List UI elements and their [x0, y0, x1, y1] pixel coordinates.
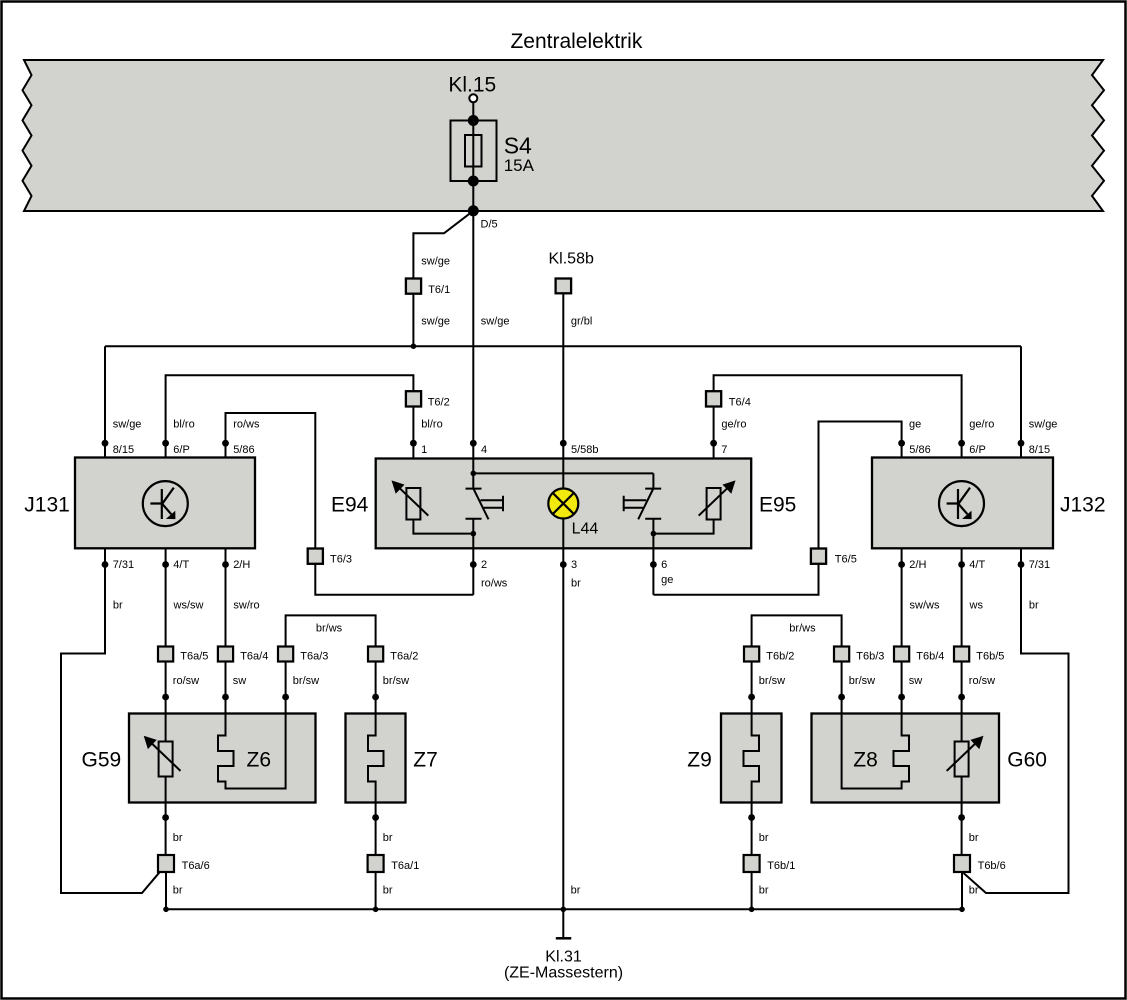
svg-text:T6b/6: T6b/6 [978, 860, 1006, 872]
switch contact E95 [624, 473, 662, 533]
connector T6b/5 [954, 647, 969, 662]
wire bus to J131 8/15 [104, 346, 106, 458]
svg-text:T6a/1: T6a/1 [391, 860, 419, 872]
svg-text:bl/ro: bl/ro [173, 419, 194, 431]
wire to heater box [225, 662, 227, 714]
connector T6a/2 [368, 647, 383, 662]
pin 5/86 [222, 440, 229, 447]
svg-text:E94: E94 [331, 494, 369, 517]
connector T6a/4 [218, 647, 233, 662]
wire J132 2/H to T6b/4 sw/ws [901, 548, 903, 646]
junction [958, 814, 965, 821]
svg-text:3: 3 [571, 559, 577, 571]
svg-text:G59: G59 [82, 749, 122, 772]
junction [372, 814, 379, 821]
svg-text:sw/ro: sw/ro [233, 600, 259, 612]
junction [282, 694, 289, 701]
svg-text:Z9: Z9 [687, 749, 712, 772]
svg-text:T6/5: T6/5 [835, 554, 857, 566]
junction ground bus [561, 907, 567, 913]
svg-text:Kl.15: Kl.15 [448, 74, 496, 97]
svg-text:sw/ge: sw/ge [1029, 419, 1058, 431]
wire J132 4/T to T6b/5 ws [961, 548, 963, 646]
connector T6/2 [406, 391, 421, 406]
pin 7/31 [1018, 561, 1025, 568]
svg-text:br: br [173, 832, 183, 844]
junction ground bus [163, 907, 169, 913]
connector T6b/4 [894, 647, 909, 662]
connector T6/5 [811, 549, 826, 564]
svg-text:Zentralelektrik: Zentralelektrik [510, 30, 642, 53]
svg-text:T6b/5: T6b/5 [976, 651, 1004, 663]
svg-text:ge: ge [909, 419, 921, 431]
wire G60 pot top [961, 714, 963, 742]
svg-text:4/T: 4/T [969, 559, 985, 571]
connector T6/4 [706, 391, 721, 406]
svg-text:gr/bl: gr/bl [571, 316, 592, 328]
connector T6a/1 [368, 855, 384, 872]
connector T6a/5 [158, 647, 173, 662]
svg-text:br: br [113, 600, 123, 612]
wire D/5 to E94 pin 4 sw/ge [472, 211, 474, 459]
svg-text:br: br [1029, 600, 1039, 612]
svg-text:T6b/2: T6b/2 [766, 651, 794, 663]
svg-text:1: 1 [421, 444, 427, 456]
junction E94 switch bottom [471, 531, 477, 537]
svg-text:br: br [759, 832, 769, 844]
wire br/ws bridge T6a/3-T6a/2 [286, 615, 376, 646]
dimmer/switch unit E94 E95 [376, 459, 752, 549]
svg-text:sw/ge: sw/ge [113, 419, 142, 431]
pin 6 [650, 561, 657, 568]
junction [748, 814, 755, 821]
junction [162, 694, 169, 701]
junction ground bus [959, 907, 965, 913]
transistor symbol J131 [143, 481, 188, 526]
svg-text:2/H: 2/H [909, 559, 926, 571]
wire to ground bus br [751, 872, 753, 909]
svg-text:G60: G60 [1007, 749, 1047, 772]
wire Kl.15 to fuse [472, 102, 474, 120]
svg-text:J131: J131 [24, 494, 70, 517]
pin 4 [470, 440, 477, 447]
connector T6a/3 [278, 647, 293, 662]
node D/5 [468, 205, 479, 216]
wire to heater box [751, 662, 753, 714]
pin 3 [560, 561, 567, 568]
wire E95 pot to switch [653, 520, 713, 534]
wire to heater box [285, 662, 287, 714]
potentiometer G59 [144, 736, 181, 777]
svg-text:2/H: 2/H [233, 559, 250, 571]
svg-text:T6a/3: T6a/3 [300, 651, 328, 663]
pin 4/T [162, 561, 169, 568]
svg-text:br/ws: br/ws [789, 623, 816, 635]
svg-text:T6a/2: T6a/2 [390, 651, 418, 663]
junction ground bus [373, 907, 379, 913]
heater unit Z8 G60 [812, 714, 1000, 803]
pin 5/86 [898, 440, 905, 447]
junction bus T6/1 [411, 343, 417, 349]
svg-text:7/31: 7/31 [1029, 559, 1050, 571]
Zentralelektrik supply block [23, 60, 1105, 211]
switch contact E94 [466, 459, 504, 534]
svg-text:D/5: D/5 [481, 219, 498, 231]
svg-text:(ZE-Massestern): (ZE-Massestern) [504, 965, 623, 982]
wire E95 switch to pin 6 [652, 534, 654, 595]
wire J131 2/H to T6a/4 sw/ro [225, 548, 227, 646]
wire D/5 to T6/1 sw/ge [413, 211, 473, 279]
svg-text:sw/ge: sw/ge [421, 256, 450, 268]
svg-text:ws/sw: ws/sw [173, 600, 204, 612]
wire to ground bus br [375, 872, 377, 909]
pin 2/H [222, 561, 229, 568]
connector T6/3 [308, 549, 323, 564]
wire E94 pot to switch [413, 520, 473, 534]
pin 8/15 [102, 440, 109, 447]
svg-text:15A: 15A [504, 156, 535, 175]
connector T6b/2 [744, 647, 759, 662]
wire T6/1 to bus [412, 294, 414, 347]
wire to heater box [841, 662, 843, 714]
junction ground bus [749, 907, 755, 913]
wire T6/3 to E94 pin 2 ro/ws [315, 564, 473, 595]
svg-text:br/ws: br/ws [316, 623, 343, 635]
svg-text:6/P: 6/P [969, 444, 986, 456]
svg-text:6/P: 6/P [173, 444, 190, 456]
svg-text:sw/ge: sw/ge [421, 316, 450, 328]
wire fuse to D/5 [472, 181, 474, 211]
pin 5/58b [560, 440, 567, 447]
svg-text:ge/ro: ge/ro [721, 419, 746, 431]
junction E95 switch bottom [651, 531, 657, 537]
svg-text:5/86: 5/86 [909, 444, 930, 456]
svg-text:Kl.31: Kl.31 [545, 949, 582, 966]
svg-text:bl/ro: bl/ro [421, 419, 442, 431]
control unit J131 [75, 458, 255, 549]
svg-text:ro/ws: ro/ws [481, 578, 508, 590]
potentiometer G60 [947, 736, 984, 777]
wire bus to J132 8/15 [1020, 346, 1022, 458]
wire Z9 out br [751, 803, 753, 856]
pin 6/P [958, 440, 965, 447]
wire J131 6/P to T6/2 bl/ro [166, 375, 414, 458]
connector T6/1 [406, 279, 421, 294]
wire T6/5 to E95 pin 6 ge [653, 564, 818, 595]
svg-text:Kl.58b: Kl.58b [549, 251, 594, 268]
wire J132 5/86 to T6/5 ge [819, 422, 902, 549]
svg-text:br: br [969, 885, 979, 897]
control unit J132 [872, 458, 1053, 549]
junction E94 switch top [471, 471, 477, 477]
pin 8/15 [1018, 440, 1025, 447]
svg-text:7/31: 7/31 [113, 559, 134, 571]
connector Kl.58b [556, 279, 572, 294]
svg-text:Z8: Z8 [853, 749, 878, 772]
wire E94 switch to E95 switch [473, 472, 653, 474]
svg-text:8/15: 8/15 [1029, 444, 1050, 456]
svg-text:ro/sw: ro/sw [969, 675, 995, 687]
connector T6b/3 [834, 647, 849, 662]
svg-text:7: 7 [721, 444, 727, 456]
pin 4/T [958, 561, 965, 568]
potentiometer E95 [699, 480, 736, 519]
svg-text:4: 4 [481, 444, 487, 456]
wire T6/4 to J132 6/P ge/ro [714, 375, 962, 458]
junction [222, 694, 229, 701]
heating element Z6 [218, 714, 286, 789]
svg-text:T6b/3: T6b/3 [856, 651, 884, 663]
svg-text:T6/4: T6/4 [729, 397, 751, 409]
connector T6b/6 [954, 855, 970, 872]
wire E95 pin 7 to T6/4 ge/ro [713, 407, 715, 459]
svg-text:br/sw: br/sw [759, 675, 785, 687]
svg-text:br: br [383, 832, 393, 844]
wire G59 out br [165, 777, 167, 856]
wire J131 4/T to T6a/5 ws/sw [165, 548, 167, 646]
svg-text:L44: L44 [572, 521, 599, 538]
pin 2 [470, 561, 477, 568]
potentiometer E94 [392, 480, 429, 519]
svg-text:br: br [759, 885, 769, 897]
wire J131 5/86 to T6/3 ro/ws [226, 413, 316, 549]
svg-text:T6a/6: T6a/6 [182, 860, 210, 872]
junction [372, 694, 379, 701]
svg-text:sw/ws: sw/ws [910, 600, 940, 612]
svg-text:ro/ws: ro/ws [233, 419, 260, 431]
junction [958, 694, 965, 701]
wire to heater box [961, 662, 963, 714]
fuse S4 [451, 115, 497, 187]
wire T6/2 to E94 pin 1 bl/ro [412, 407, 414, 489]
svg-text:T6b/4: T6b/4 [916, 651, 944, 663]
wire E94 switch to pin 2 [472, 534, 474, 595]
svg-text:T6b/1: T6b/1 [767, 860, 795, 872]
pin 1 [410, 440, 417, 447]
ground Kl.31 [556, 909, 572, 938]
pin 7/31 [102, 561, 109, 568]
svg-text:T6/1: T6/1 [428, 284, 450, 296]
heating element Z7 [368, 714, 384, 803]
wire lamp pin 3 to ground br [562, 519, 564, 910]
junction [162, 814, 169, 821]
wire G60 out br [961, 777, 963, 856]
svg-text:br/sw: br/sw [293, 675, 319, 687]
svg-text:sw/ge: sw/ge [481, 316, 510, 328]
svg-text:T6a/4: T6a/4 [240, 651, 268, 663]
svg-text:ro/sw: ro/sw [173, 675, 199, 687]
svg-text:ge: ge [661, 574, 673, 586]
wire to ground bus br [165, 872, 167, 909]
svg-text:Z7: Z7 [413, 749, 438, 772]
svg-text:Z6: Z6 [247, 749, 272, 772]
svg-text:4/T: 4/T [173, 559, 189, 571]
wire ground bus Kl.31 [166, 908, 962, 910]
svg-text:5/86: 5/86 [233, 444, 254, 456]
wire to heater box [165, 662, 167, 714]
connector T6a/6 [158, 855, 174, 872]
sensor/heater unit G59 Z6 [129, 714, 316, 803]
wire lamp top [562, 459, 564, 489]
svg-text:8/15: 8/15 [113, 444, 134, 456]
junction [898, 694, 905, 701]
svg-text:2: 2 [481, 559, 487, 571]
wire J132 7/31 to T6b/6 br [964, 548, 1069, 893]
svg-text:T6/3: T6/3 [330, 554, 352, 566]
svg-text:T6a/5: T6a/5 [180, 651, 208, 663]
transistor symbol J132 [939, 481, 984, 526]
wire G59 pot top [165, 714, 167, 742]
svg-text:br/sw: br/sw [383, 675, 409, 687]
connector T6b/1 [744, 855, 760, 872]
wire to heater box [901, 662, 903, 714]
svg-text:ws: ws [969, 600, 984, 612]
wire to ground bus br [961, 872, 963, 909]
svg-text:br: br [571, 885, 581, 897]
svg-text:sw: sw [233, 675, 247, 687]
heating element Z9 [744, 714, 760, 803]
heater element unit Z7 [346, 714, 406, 803]
svg-text:br/sw: br/sw [849, 675, 875, 687]
heater element unit Z9 [721, 714, 782, 803]
junction [838, 694, 845, 701]
svg-text:br: br [571, 578, 581, 590]
svg-text:br: br [383, 885, 393, 897]
junction [748, 694, 755, 701]
wire br/ws bridge T6b/2-T6b/3 [752, 615, 842, 646]
pin 2/H [898, 561, 905, 568]
svg-text:br: br [173, 885, 183, 897]
svg-text:ge/ro: ge/ro [969, 419, 994, 431]
svg-text:sw: sw [909, 675, 923, 687]
svg-text:S4: S4 [504, 133, 532, 159]
svg-text:5/58b: 5/58b [571, 444, 599, 456]
pin 6/P [162, 440, 169, 447]
lamp L44 [548, 489, 578, 519]
svg-text:J132: J132 [1060, 494, 1106, 517]
svg-text:6: 6 [661, 559, 667, 571]
wire Z7 out br [375, 803, 377, 856]
wire to heater box [375, 662, 377, 714]
wire sw/ge bus [105, 345, 1021, 347]
wire Kl.58b to E94 pin 5/58b gr/bl [562, 293, 564, 458]
svg-text:br: br [969, 832, 979, 844]
wire J131 7/31 to T6a/6 br [61, 548, 160, 893]
terminal Kl.15 circle [469, 94, 477, 102]
svg-text:T6/2: T6/2 [428, 397, 450, 409]
svg-text:E95: E95 [759, 494, 796, 517]
heating element Z8 [842, 714, 909, 789]
pin 7 [710, 440, 717, 447]
